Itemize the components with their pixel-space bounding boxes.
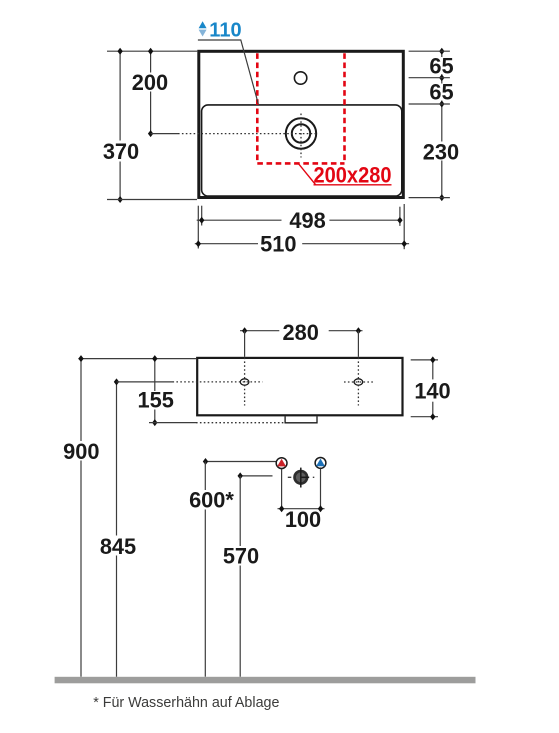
dim 845 vertical bbox=[116, 382, 118, 536]
blue height symbol: up triangle bbox=[199, 21, 207, 28]
svg-text:100: 100 bbox=[285, 507, 321, 532]
svg-text:498: 498 bbox=[289, 208, 325, 233]
dim 155 bottom tick bbox=[149, 422, 196, 424]
drain tab below basin bbox=[285, 416, 317, 422]
dim 280 line bbox=[240, 330, 279, 332]
drain outer circle bbox=[286, 118, 316, 148]
red label underline bbox=[314, 184, 392, 186]
svg-text:845: 845 bbox=[100, 534, 136, 559]
cold water indicator (blue) bbox=[315, 458, 326, 469]
drain center line vertical dotted bbox=[300, 114, 302, 158]
svg-text:140: 140 bbox=[414, 378, 450, 403]
leader line from 110 label bbox=[198, 40, 258, 104]
svg-text:65: 65 bbox=[429, 80, 453, 105]
svg-text:200x280: 200x280 bbox=[314, 163, 392, 188]
svg-text:900: 900 bbox=[63, 439, 99, 464]
mixer symbol bbox=[288, 476, 292, 478]
dim 140 ticks bbox=[411, 359, 438, 361]
tap hole right bbox=[354, 379, 363, 385]
dim 100 extension lines bbox=[281, 469, 283, 509]
dim 100 line bbox=[278, 508, 325, 510]
inner bowl rounded rectangle bbox=[202, 105, 402, 196]
svg-text:370: 370 bbox=[103, 139, 139, 164]
right dim vertical line (65/65/230) bbox=[441, 51, 443, 57]
right dim ticks bbox=[409, 50, 450, 52]
tap line dotted (845 level) bbox=[173, 381, 263, 383]
dim 498 line bbox=[197, 219, 282, 221]
dim 900 vertical bbox=[80, 359, 82, 441]
svg-text:510: 510 bbox=[260, 231, 296, 256]
basin front rectangle bbox=[197, 358, 402, 415]
tap hole left bbox=[240, 379, 249, 385]
dim 200 vertical line bbox=[150, 51, 152, 72]
floor line bbox=[55, 677, 476, 684]
dim tick bottom-left y=199.5 bbox=[107, 199, 197, 201]
svg-text:* Für Wasserhähn auf Ablage: * Für Wasserhähn auf Ablage bbox=[93, 695, 279, 711]
svg-text:600*: 600* bbox=[189, 488, 234, 513]
top tick line (900 level) bbox=[78, 358, 196, 360]
dim 155 vertical bbox=[154, 359, 156, 391]
red dashed tap area: right vertical bbox=[343, 53, 346, 163]
hot water indicator (red) bbox=[276, 458, 287, 469]
hidden bottom dotted line bbox=[196, 422, 285, 424]
svg-text:65: 65 bbox=[429, 53, 453, 78]
svg-text:280: 280 bbox=[283, 320, 319, 345]
svg-text:230: 230 bbox=[423, 139, 459, 164]
dim tick top-left y=51.2 bbox=[107, 50, 197, 52]
dim 370 vertical line bbox=[119, 51, 121, 140]
svg-text:110: 110 bbox=[209, 19, 241, 41]
drain center line horizontal dotted bbox=[178, 133, 318, 135]
dim 600* top tick bbox=[206, 461, 277, 463]
dim 570 vertical bbox=[239, 476, 241, 546]
svg-text:570: 570 bbox=[223, 544, 259, 569]
drain inner circle bbox=[292, 124, 310, 142]
svg-text:200: 200 bbox=[132, 70, 168, 95]
tap hole right crosshair bbox=[357, 358, 359, 406]
dim 280 extension lines bbox=[244, 331, 246, 357]
dim 498 extension lines bbox=[201, 206, 203, 226]
tap hole left crosshair bbox=[244, 358, 246, 406]
outer basin rectangle bbox=[199, 51, 403, 197]
dim 570 top tick bbox=[240, 475, 272, 477]
dim 845 solid tick to dotted bbox=[117, 381, 173, 383]
red dashed tap area: left vertical bbox=[256, 53, 259, 163]
dim 510 line bbox=[195, 243, 258, 245]
red dashed tap area: bottom edge bbox=[257, 162, 344, 165]
blue height symbol: down triangle bbox=[199, 30, 207, 37]
red leader line bbox=[299, 164, 316, 185]
svg-text:155: 155 bbox=[138, 388, 174, 413]
dim 510 extension lines bbox=[197, 206, 199, 249]
dim 140 vertical line bbox=[432, 360, 434, 380]
dim 600* vertical bbox=[204, 462, 206, 491]
dim 200 bottom tick (to drain center) bbox=[151, 133, 178, 135]
overflow hole bbox=[294, 72, 306, 84]
